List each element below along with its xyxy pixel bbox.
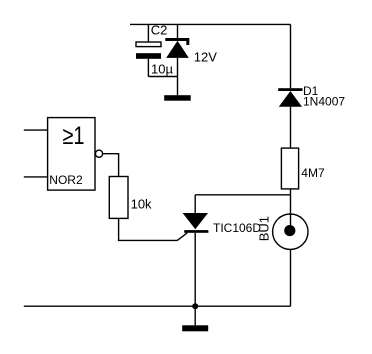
- svg-text:C2: C2: [151, 23, 168, 38]
- svg-text:12V: 12V: [194, 49, 217, 64]
- wire 10k to thyristor gate: [119, 218, 188, 240]
- wire ground stub: [194, 306, 196, 325]
- junction dot: [192, 303, 198, 309]
- wire bottom rail: [24, 305, 291, 307]
- wire input 2: [24, 176, 48, 178]
- wire 4M7 to buzzer: [290, 189, 292, 226]
- wire right rail from top corner to D1: [290, 24, 292, 88]
- svg-text:≥1: ≥1: [63, 122, 85, 150]
- wire C2 stem top: [147, 24, 149, 42]
- capacitor C2: [136, 42, 161, 59]
- resistor 4M7: [281, 148, 298, 189]
- wire C2 stem bottom: [147, 59, 149, 77]
- diode D1: [278, 88, 302, 107]
- wire NOR output to 10k: [103, 154, 119, 177]
- wire top rail: [130, 23, 291, 25]
- wire buzzer to bottom rail: [290, 249, 292, 306]
- wire anode stem: [194, 195, 196, 213]
- svg-text:1N4007: 1N4007: [303, 94, 345, 108]
- svg-text:NOR2: NOR2: [49, 173, 83, 187]
- thyristor TIC106D: [183, 213, 209, 233]
- svg-text:4M7: 4M7: [301, 166, 325, 180]
- ground below zener: [164, 95, 191, 101]
- svg-text:10k: 10k: [131, 196, 152, 211]
- zener diode 12V: [165, 24, 189, 95]
- buzzer BU1: [273, 214, 308, 249]
- svg-text:10µ: 10µ: [151, 61, 173, 76]
- wire D1 to 4M7: [290, 107, 292, 148]
- wire cathode to bottom rail: [194, 233, 196, 306]
- wire C2 to zener node: [148, 76, 177, 78]
- svg-text:TIC106D: TIC106D: [213, 221, 261, 235]
- wire input 1: [24, 129, 48, 131]
- resistor 10k: [109, 177, 128, 219]
- NOR gate U1: [48, 118, 103, 191]
- wire anode node: horizontal to right rail: [195, 194, 290, 196]
- ground (bottom): [182, 325, 208, 331]
